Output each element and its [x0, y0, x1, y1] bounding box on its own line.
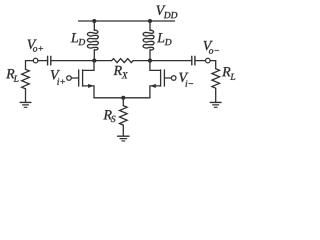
resistor RS	[120, 106, 128, 126]
label VDD	[156, 6, 177, 19]
label Vi+	[51, 70, 65, 85]
resistor RX	[112, 59, 133, 63]
wire: RL1 to ground	[25, 89, 27, 102]
inductor LD1	[87, 30, 98, 50]
ground GND1	[20, 102, 31, 107]
label Vo+	[28, 40, 43, 52]
wire: Vo+ corner to terminal	[26, 61, 34, 70]
wire: RL2 to ground	[215, 88, 217, 102]
wire: terminal to C1	[38, 60, 47, 62]
capacitor C1	[48, 56, 51, 65]
terminal Vi+	[67, 76, 72, 81]
wire: node A to RX	[94, 60, 111, 62]
terminal Vo-	[206, 58, 211, 63]
wire: node S to RS	[122, 98, 124, 106]
wire: terminal Vi- to gate M2	[165, 77, 171, 79]
resistor RL2	[212, 69, 220, 89]
inductor LD2	[143, 30, 154, 50]
wire: RS to ground	[122, 125, 124, 136]
wire: VDD top rail	[79, 20, 175, 22]
label RX	[114, 66, 128, 79]
wire: rail to LD1	[93, 21, 95, 30]
label LD1	[71, 33, 85, 45]
label Vo-	[204, 41, 219, 54]
wire: C1 to node A	[51, 60, 94, 62]
label Vi-	[179, 73, 193, 87]
wire: terminal Vo- to RL2 corner	[210, 61, 216, 69]
ground GND3	[118, 136, 129, 141]
node B junction	[148, 59, 152, 63]
terminal Vo+	[33, 58, 38, 63]
transistor M2	[150, 61, 165, 98]
wire: C2 to terminal Vo-	[196, 60, 206, 62]
ground GND2	[210, 102, 221, 107]
label RL1	[6, 69, 18, 82]
label LD2	[157, 33, 171, 45]
label RS	[103, 110, 115, 122]
node S junction	[121, 96, 125, 100]
resistor RL1	[22, 69, 30, 89]
capacitor C2	[192, 56, 195, 65]
wire: LD1 to node A	[93, 50, 95, 61]
terminal Vi-	[171, 76, 176, 81]
wire: terminal Vi+ to gate M1	[71, 77, 78, 79]
wire: source bottom rail	[94, 97, 150, 99]
transistor M1	[79, 61, 94, 98]
node: rail junction right	[148, 19, 152, 23]
wire: node B to C2	[150, 60, 191, 62]
label RL2	[222, 67, 235, 80]
node A junction	[92, 59, 96, 63]
node: rail junction left	[92, 19, 96, 23]
wire: rail to LD2	[149, 21, 151, 30]
wire: LD2 to node B	[149, 50, 151, 61]
wire: RX to node B	[133, 60, 150, 62]
